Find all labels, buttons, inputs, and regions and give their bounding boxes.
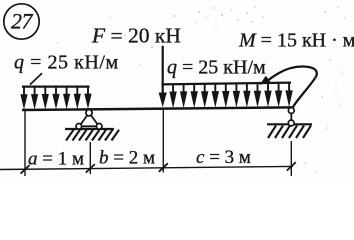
distributed load q2 arrows	[169, 83, 292, 109]
distributed load q1 arrows	[20, 87, 91, 110]
ground line under pin support	[65, 128, 114, 130]
moment M curved arrow	[260, 67, 317, 108]
ground line under roller support	[267, 123, 312, 125]
extension line at roller	[290, 141, 292, 176]
svg-text:a = 1 м: a = 1 м	[28, 148, 84, 169]
tick at x=25	[21, 165, 30, 174]
tick at x=163	[159, 163, 168, 172]
pin support (hinge on triangle)	[76, 110, 102, 129]
svg-text:M = 15 кН · м: M = 15 кН · м	[238, 30, 354, 52]
svg-text:b = 2 м: b = 2 м	[99, 147, 155, 168]
svg-text:q = 25 кН/м: q = 25 кН/м	[167, 57, 266, 79]
tick at x=90	[86, 164, 95, 173]
distributed load q1 top line	[22, 85, 90, 87]
extension line at support a/b	[89, 142, 91, 174]
extension line at beam left end	[24, 111, 26, 177]
beam	[22, 107, 292, 110]
dimension line	[0, 166, 293, 169]
problem number circle 27	[4, 4, 39, 39]
extension line at F b/c	[162, 110, 164, 173]
svg-text:c = 3 м: c = 3 м	[196, 147, 251, 168]
hatching under pin support	[66, 130, 119, 141]
roller support (hinged rod)	[288, 108, 294, 126]
leader line from q1 label to load	[30, 73, 42, 84]
hatching under roller support	[268, 126, 311, 139]
svg-text:27: 27	[11, 9, 34, 34]
svg-text:F = 20 кН: F = 20 кН	[91, 24, 181, 48]
distributed load q2 top line	[162, 83, 292, 85]
tick at x=291	[287, 162, 296, 171]
force F arrow	[159, 46, 167, 107]
svg-text:q = 25 кН/м: q = 25 кН/м	[14, 51, 119, 73]
